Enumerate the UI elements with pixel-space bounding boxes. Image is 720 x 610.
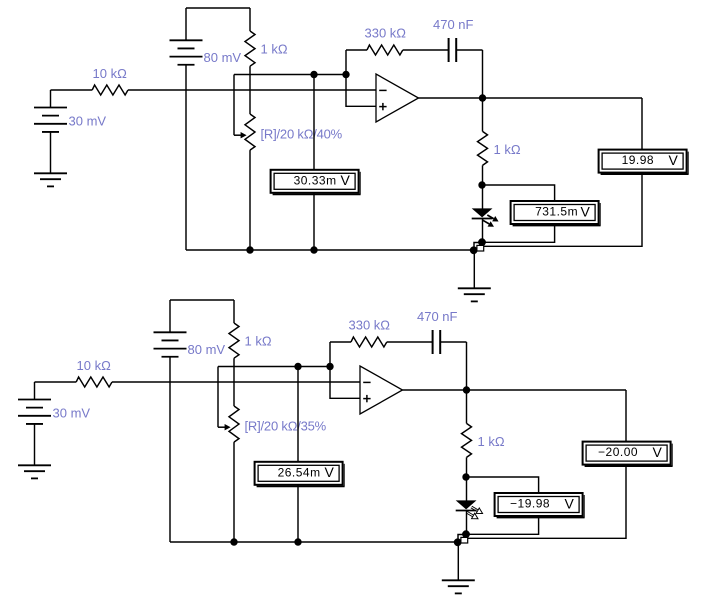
LED arrows <box>471 508 477 512</box>
svg-text:V: V <box>340 172 350 188</box>
wire R2 to potentiometer <box>233 358 235 406</box>
junction node wiper-meter <box>294 363 301 370</box>
wiper arrow of potentiometer <box>218 426 225 428</box>
wire output down to R4 <box>482 98 484 131</box>
resistor R2 1 kohm <box>245 31 255 66</box>
wire LED cathode down <box>466 511 468 535</box>
voltage source V1 30 mV <box>34 107 67 109</box>
wire feedback up <box>345 50 347 75</box>
wire voltmeter U4 return <box>468 465 627 539</box>
op-amp plus sign <box>363 398 370 400</box>
capacitor C1 470 nF <box>432 330 434 354</box>
junction node rail-pot <box>230 538 237 545</box>
wire output to voltmeter U4 <box>641 98 643 150</box>
net connector square <box>477 245 484 251</box>
svg-text:1 kΩ: 1 kΩ <box>245 334 272 349</box>
wire main to op-amp inverting input <box>128 89 376 91</box>
wire top rail <box>170 299 234 301</box>
svg-text:[R]/20 kΩ/35%: [R]/20 kΩ/35% <box>245 418 327 433</box>
voltmeter U3 &#8722;19.98 <box>495 493 583 516</box>
svg-text:330 kΩ: 330 kΩ <box>365 26 407 41</box>
svg-text:10 kΩ: 10 kΩ <box>77 358 112 373</box>
wire LED meter loop bottom <box>482 224 555 242</box>
junction node output <box>463 386 470 393</box>
wire voltmeter U4 return <box>484 173 643 247</box>
resistor R4 1 kohm <box>462 423 472 457</box>
svg-text:30 mV: 30 mV <box>69 114 107 129</box>
resistor R3 330 kohm <box>367 45 403 55</box>
wire main input <box>35 381 77 383</box>
wiper arrow of potentiometer <box>234 134 241 136</box>
wire to op-amp non-inverting input <box>346 75 376 107</box>
svg-text:1 kΩ: 1 kΩ <box>478 434 505 449</box>
battery V2 80 mV <box>170 39 203 41</box>
op-amp minus sign <box>363 381 370 383</box>
voltmeter U4 19.98 <box>599 150 687 173</box>
wire wiper to voltmeter U2 <box>313 75 315 170</box>
resistor R2 1 kohm <box>229 323 239 358</box>
op-amp U1 <box>360 366 403 414</box>
svg-text:1 kΩ: 1 kΩ <box>261 42 288 57</box>
svg-text:470 nF: 470 nF <box>433 17 474 32</box>
wire wiper vertical <box>217 367 219 428</box>
ground symbol <box>458 287 491 289</box>
svg-text:19.98: 19.98 <box>622 153 655 167</box>
wire potentiometer to bottom rail <box>233 442 235 542</box>
svg-text:V: V <box>668 152 678 168</box>
junction dot B <box>454 538 462 546</box>
junction dot A <box>462 530 470 538</box>
wire output down to R4 <box>466 390 468 423</box>
wire R2 to potentiometer <box>249 66 251 114</box>
wire main to op-amp inverting input <box>112 381 360 383</box>
net connector square <box>461 537 468 543</box>
svg-text:30.33m: 30.33m <box>294 173 337 187</box>
wire LED meter loop top <box>466 477 539 493</box>
wire C1 to output node <box>440 341 466 343</box>
voltmeter U2 30.33m <box>271 170 359 193</box>
junction dot B <box>470 246 478 254</box>
wire bottom rail <box>170 541 458 543</box>
wire wiper vertical <box>233 75 235 136</box>
voltage source V1 30 mV <box>18 399 51 401</box>
wire wiper rail <box>218 366 330 368</box>
wire top rail <box>186 7 250 9</box>
junction node wiper-feedback <box>326 363 333 370</box>
wire voltmeter U2 to bottom rail <box>297 485 299 542</box>
potentiometer R 20 kohm <box>229 406 239 442</box>
resistor R1 10 kohm <box>76 377 112 387</box>
wire bottom rail <box>186 249 474 251</box>
svg-text:10 kΩ: 10 kΩ <box>93 66 128 81</box>
resistor R3 330 kohm <box>351 337 387 347</box>
svg-text:−19.98: −19.98 <box>510 497 550 511</box>
op-amp plus sign <box>379 106 386 108</box>
op-amp U1 <box>376 74 419 122</box>
wire battery to R2 <box>233 300 235 323</box>
wire jog step <box>474 243 482 251</box>
wire to ground <box>457 544 459 580</box>
wire feedback up <box>329 342 331 367</box>
junction node wiper-meter <box>310 71 317 78</box>
svg-text:V: V <box>652 444 662 460</box>
wire main input <box>51 89 93 91</box>
voltmeter U2 26.54m <box>255 462 343 485</box>
wire feedback left <box>346 49 367 51</box>
wire LED meter loop top <box>482 185 555 201</box>
svg-text:30 mV: 30 mV <box>53 406 91 421</box>
junction node LED anode <box>478 181 485 188</box>
resistor R4 1 kohm <box>478 131 488 165</box>
svg-text:1 kΩ: 1 kΩ <box>494 142 521 157</box>
svg-text:−20.00: −20.00 <box>598 445 638 459</box>
svg-text:[R]/20 kΩ/40%: [R]/20 kΩ/40% <box>261 126 343 141</box>
wire R4 to LED <box>482 165 484 208</box>
wire LED cathode down <box>482 219 484 243</box>
junction node rail-pot <box>246 246 253 253</box>
resistor R1 10 kohm <box>92 85 128 95</box>
svg-text:80 mV: 80 mV <box>188 342 226 357</box>
capacitor C1 470 nF <box>448 38 450 62</box>
junction node rail-meter <box>294 538 301 545</box>
svg-text:330 kΩ: 330 kΩ <box>349 318 391 333</box>
junction node output <box>479 94 486 101</box>
svg-text:80 mV: 80 mV <box>204 50 242 65</box>
wire feedback left <box>330 341 351 343</box>
wire R3 to C1 <box>403 49 448 51</box>
wire LED meter loop bottom <box>466 516 539 534</box>
LED arrows <box>487 215 493 219</box>
wire R4 to LED <box>466 457 468 500</box>
svg-text:V: V <box>564 495 574 511</box>
potentiometer R 20 kohm <box>245 114 255 150</box>
wire wiper to voltmeter U2 <box>297 367 299 462</box>
svg-text:26.54m: 26.54m <box>278 465 321 479</box>
wire potentiometer to bottom rail <box>249 150 251 250</box>
svg-text:470 nF: 470 nF <box>417 309 458 324</box>
ground of V1 <box>18 464 51 466</box>
wire wiper rail <box>234 74 346 76</box>
svg-text:V: V <box>324 464 334 480</box>
wire battery to R2 <box>249 8 251 31</box>
ground of V1 <box>34 172 67 174</box>
junction dot A <box>478 238 486 246</box>
wire R3 to C1 <box>387 341 432 343</box>
svg-text:731.5m: 731.5m <box>535 205 578 219</box>
wire op-amp output <box>403 389 627 391</box>
battery V2 80 mV <box>154 331 187 333</box>
junction node wiper-feedback <box>342 71 349 78</box>
wire jog step <box>458 535 466 543</box>
voltmeter U3 731.5m <box>511 201 599 224</box>
wire voltmeter U2 to bottom rail <box>313 193 315 250</box>
wire to ground <box>473 252 475 288</box>
wire C1 to output node <box>456 49 482 51</box>
LED D1 <box>456 500 477 509</box>
ground symbol <box>442 579 475 581</box>
wire op-amp output <box>419 97 643 99</box>
wire to op-amp non-inverting input <box>330 367 360 399</box>
junction node LED anode <box>462 473 469 480</box>
junction node rail-meter <box>310 246 317 253</box>
svg-text:V: V <box>580 203 590 219</box>
op-amp minus sign <box>379 89 386 91</box>
voltmeter U4 &#8722;20.00 <box>583 442 671 465</box>
wire output to voltmeter U4 <box>625 390 627 442</box>
LED D1 <box>472 208 493 217</box>
